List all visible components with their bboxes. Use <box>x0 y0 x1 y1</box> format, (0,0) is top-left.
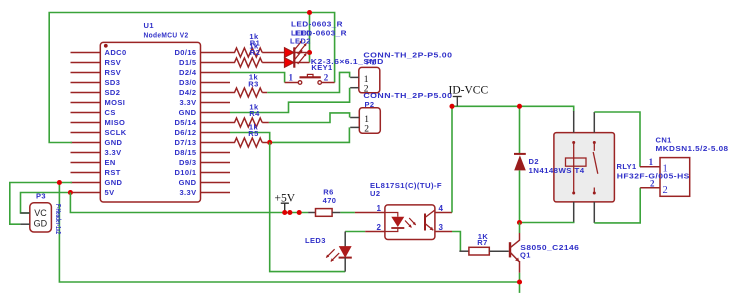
wire GND down to bottom rail <box>59 183 519 283</box>
U1 left pin GND (row 10) <box>71 142 101 144</box>
P1 pin1 stub <box>350 76 359 78</box>
junction dot b <box>297 210 302 215</box>
svg-text:RSV: RSV <box>105 68 122 77</box>
P3 GD pin stub <box>20 223 30 225</box>
svg-text:1: 1 <box>364 115 369 125</box>
junction dot LED1 cathode <box>307 50 312 55</box>
relay switch bottom line <box>593 188 595 194</box>
svg-text:1: 1 <box>377 204 382 213</box>
wire R6 to U2 pin1 <box>340 212 355 214</box>
wire 5V down to +5V line <box>70 193 308 213</box>
wire U2 pin3 to R7 <box>452 232 460 252</box>
relay switch top pin <box>593 112 595 133</box>
svg-text:F-Header-1x2: F-Header-1x2 <box>54 204 63 234</box>
wire ID-VCC down to D2 cathode <box>519 106 521 154</box>
wire D2 anode down <box>519 170 521 222</box>
relay coil top dot <box>572 141 575 144</box>
junction dot collector net <box>517 220 522 225</box>
P2 pin1 stub <box>350 117 359 119</box>
U1 left pin 3.3V (row 11) <box>71 152 101 154</box>
U1 right pin 3.3V (row 15) <box>201 192 231 194</box>
wire: U1 GND(row10) up-left-over to KEY1/LED rail <box>49 13 334 143</box>
svg-text:ID-VCC: ID-VCC <box>449 85 489 97</box>
svg-text:5V: 5V <box>105 188 115 197</box>
KEY1 pin2 lead <box>322 82 335 84</box>
svg-text:GND: GND <box>105 138 123 147</box>
svg-text:1: 1 <box>663 163 668 174</box>
svg-text:R5: R5 <box>248 129 258 138</box>
LED LED1 triangle <box>284 48 294 58</box>
CN1 pin2 lead <box>640 187 660 189</box>
svg-text:1: 1 <box>649 157 654 167</box>
U2 internal cathode bar <box>391 227 404 229</box>
resistor R4 <box>235 118 263 127</box>
wire U2 pin2 to LED3 anode <box>345 231 365 233</box>
svg-text:MOSI: MOSI <box>105 98 126 107</box>
svg-text:3: 3 <box>439 223 444 232</box>
wire relay switch top to CN1 pin1 <box>594 112 640 167</box>
U1 right pin D3/0 (row 4) <box>201 82 231 84</box>
P2 pin2 stub <box>350 126 359 128</box>
svg-text:LED3: LED3 <box>305 236 326 245</box>
U1 left pin SD2 (row 5) <box>71 92 101 94</box>
U2 internal cathode line <box>385 228 398 232</box>
U2 phototransistor bar <box>424 214 426 231</box>
U1 right pin D1/5 (row 2) <box>201 62 235 64</box>
Q1 collector <box>510 233 520 248</box>
LED3 cathode bar <box>339 257 352 259</box>
connector P3 body <box>30 203 52 232</box>
U1 left pin RST (row 13) <box>71 172 101 174</box>
wire D2/collector to relay coil- <box>520 222 575 224</box>
R6 left lead <box>308 212 315 214</box>
junction dot D2 top <box>517 104 522 109</box>
U2 internal LED triangle <box>391 217 404 227</box>
U1 left pin RSV (row 2) <box>71 62 101 64</box>
U1 right pin D9/3 (row 12) <box>201 162 231 164</box>
svg-text:3.3V: 3.3V <box>105 148 122 157</box>
U1 left pin SD3 (row 4) <box>71 82 101 84</box>
LED3 cathode lead <box>344 258 346 272</box>
svg-text:D5/14: D5/14 <box>174 118 196 127</box>
U1 left pin 5V (row 15) <box>71 192 101 194</box>
svg-text:EL817S1(C)(TU)-F: EL817S1(C)(TU)-F <box>370 181 442 190</box>
Q1 emitter <box>510 252 519 261</box>
wire U1 GND(row7) to P1 pin2 <box>230 88 350 113</box>
U2 pin3 lead <box>435 231 452 233</box>
ID-VCC tick stem <box>456 97 458 107</box>
P1 pin2 stub <box>350 87 359 89</box>
svg-text:D2/4: D2/4 <box>179 68 197 77</box>
U1 right pin D4/2 (row 5) <box>201 92 235 94</box>
svg-text:GND: GND <box>179 108 197 117</box>
svg-text:CONN-TH_2P-P5.00: CONN-TH_2P-P5.00 <box>363 91 452 100</box>
svg-text:2: 2 <box>650 178 655 188</box>
svg-text:D8/15: D8/15 <box>174 148 196 157</box>
wire U2 pin4 up to ID-VCC <box>451 106 453 212</box>
R5 lead <box>262 142 267 144</box>
svg-text:SCLK: SCLK <box>105 128 127 137</box>
relay coil line <box>573 142 575 193</box>
U2 coupling arrows <box>405 221 412 228</box>
svg-text:D0/16: D0/16 <box>174 48 196 57</box>
svg-text:R3: R3 <box>248 79 258 88</box>
U1 right pin D2/4 (row 3) <box>201 72 231 74</box>
svg-text:470: 470 <box>323 196 337 205</box>
U2 pin2 lead <box>365 231 385 233</box>
U1 left pin EN (row 12) <box>71 162 101 164</box>
connector CN1 body <box>660 158 690 197</box>
svg-text:MKDSN1.5/2-5.08: MKDSN1.5/2-5.08 <box>656 144 729 153</box>
U1 left pin MOSI (row 6) <box>71 102 101 104</box>
svg-text:D3/0: D3/0 <box>179 78 196 87</box>
wire R3 to P1 pin1 <box>267 72 349 92</box>
svg-text:CS: CS <box>105 108 116 117</box>
relay coil+ top pin <box>573 111 575 133</box>
wire R1 to LED1 anode <box>262 52 284 54</box>
svg-text:P2: P2 <box>365 100 375 109</box>
U1 left pin MISO (row 8) <box>71 122 101 124</box>
diode D2 triangle <box>514 155 526 170</box>
R7 left lead <box>459 250 469 252</box>
KEY1 pin2 contact circle <box>318 81 322 85</box>
junction dot R5/D6 net <box>267 140 272 145</box>
svg-text:R2: R2 <box>250 48 260 57</box>
relay coil box <box>566 158 587 166</box>
relay switch bottom pin <box>593 202 595 223</box>
mcu U1 NodeMCU V2 body <box>100 42 200 202</box>
wire R5 net down to LED3 cathode line <box>270 142 346 271</box>
svg-text:2: 2 <box>364 125 369 135</box>
wire relay switch to CN1 pin2 <box>594 188 640 223</box>
KEY1 pin1 lead <box>285 82 299 84</box>
junction dot a <box>287 210 292 215</box>
svg-text:D6/12: D6/12 <box>174 128 196 137</box>
svg-text:1: 1 <box>289 73 294 83</box>
U1 left pin GND (row 14) <box>71 182 101 184</box>
transistor Q1 base bar <box>509 242 511 257</box>
svg-text:MISO: MISO <box>105 118 126 127</box>
U2 pin1 lead <box>355 212 385 214</box>
svg-text:SD2: SD2 <box>105 88 121 97</box>
svg-text:Q1: Q1 <box>520 251 531 260</box>
KEY1 button bump <box>307 74 313 77</box>
optocoupler U2 body <box>385 205 435 240</box>
CN1 pin1 lead <box>640 166 660 168</box>
relay coil- bottom pin <box>573 202 575 223</box>
LED1/LED2 cathode bar <box>293 47 295 67</box>
wire LED1 cathode to junction <box>294 52 309 54</box>
ID-VCC tick bar <box>453 96 462 98</box>
svg-text:LED-0603_R: LED-0603_R <box>291 19 343 28</box>
LED2 emission arrows <box>294 50 303 61</box>
relay switch top dot <box>593 141 596 144</box>
relay RLY1 body <box>554 133 615 202</box>
LED LED2 triangle <box>284 58 294 68</box>
LED1 emission arrows <box>294 40 303 51</box>
U1 left pin RSV (row 3) <box>71 72 101 74</box>
connector P1 body <box>359 67 380 92</box>
diode D2 cathode bar <box>514 153 526 155</box>
svg-text:3.3V: 3.3V <box>179 98 196 107</box>
svg-text:GD: GD <box>34 219 48 229</box>
U1 pin-1 marker dot <box>104 44 108 48</box>
junction dot 5V <box>68 190 73 195</box>
svg-text:CONN-TH_2P-P5.00: CONN-TH_2P-P5.00 <box>363 50 452 59</box>
R6 right lead <box>332 212 340 214</box>
junction dot GND <box>57 180 62 185</box>
svg-text:3.3V: 3.3V <box>179 188 196 197</box>
U1 right pin D0/16 (row 1) <box>201 52 235 54</box>
R7 right lead <box>489 250 509 252</box>
svg-text:R7: R7 <box>477 238 487 247</box>
relay switch bottom dot <box>593 192 596 195</box>
svg-text:2: 2 <box>377 223 382 232</box>
KEY1 actuator bar <box>300 76 321 78</box>
wire U1 GND(row14) to P3 GD <box>10 183 72 225</box>
svg-text:P3: P3 <box>36 192 46 201</box>
wire emitter to bottom rail <box>519 273 521 293</box>
junction dot ID-VCC left <box>449 104 454 109</box>
relay coil bottom dot <box>572 192 575 195</box>
+5V symbol stem <box>284 203 286 212</box>
svg-text:D1/5: D1/5 <box>179 58 196 67</box>
wire R2 to LED2 anode <box>262 62 284 64</box>
wire: LED cathode drop from rail <box>309 13 311 63</box>
svg-text:ADC0: ADC0 <box>105 48 127 57</box>
svg-text:D4/2: D4/2 <box>179 88 196 97</box>
R4 lead <box>262 122 269 124</box>
LED LED3 triangle <box>340 247 351 257</box>
svg-text:NodeMCU V2: NodeMCU V2 <box>144 30 189 39</box>
U2 internal anode line <box>385 213 398 217</box>
ID-VCC rail wire <box>452 106 574 111</box>
svg-text:D2: D2 <box>529 157 539 166</box>
U1 left pin CS (row 7) <box>71 112 101 114</box>
svg-text:2: 2 <box>663 185 668 196</box>
svg-text:R4: R4 <box>249 109 260 118</box>
resistor R6 body <box>316 209 333 217</box>
svg-text:D9/3: D9/3 <box>179 158 196 167</box>
svg-text:RST: RST <box>105 168 121 177</box>
svg-text:RSV: RSV <box>105 58 122 67</box>
LED3 anode lead <box>344 232 346 247</box>
wire collector up <box>519 223 521 234</box>
U1 left pin ADC0 (row 1) <box>71 52 101 54</box>
svg-text:GND: GND <box>179 178 197 187</box>
connector P2 body <box>359 108 380 134</box>
svg-text:KEY1: KEY1 <box>311 63 332 72</box>
U2 pin4 lead <box>435 212 452 214</box>
U1 right pin D6/12 (row 9) <box>201 132 231 134</box>
junction dot emitter/bottom rail <box>517 279 522 284</box>
relay switch top line <box>593 142 595 150</box>
R3 lead <box>262 92 267 94</box>
U1 right pin 3.3V (row 6) <box>201 102 231 104</box>
wire D6/12 down to R5 junction <box>230 133 270 143</box>
svg-text:2: 2 <box>324 73 329 83</box>
svg-text:P1: P1 <box>366 58 376 67</box>
junction dot +5V tap <box>282 210 287 215</box>
resistor R1 <box>235 48 263 57</box>
svg-text:4: 4 <box>439 204 444 213</box>
svg-text:LED2: LED2 <box>290 37 311 46</box>
svg-text:VC: VC <box>34 208 47 218</box>
relay switch blade <box>593 152 598 174</box>
U1 right pin D7/13 (row 10) <box>201 142 235 144</box>
svg-text:SD3: SD3 <box>105 78 121 87</box>
+5V symbol bar <box>281 202 289 204</box>
svg-text:GND: GND <box>105 178 123 187</box>
U1 left pin SCLK (row 9) <box>71 132 101 134</box>
resistor R7 body <box>469 247 489 255</box>
resistor R5 <box>235 138 263 147</box>
U1 right pin GND (row 14) <box>201 182 231 184</box>
wire D2/4 to KEY1 pin1 <box>230 73 285 83</box>
U1 right pin D10/1 (row 13) <box>201 172 231 174</box>
svg-text:EN: EN <box>105 158 116 167</box>
U1 right pin GND (row 7) <box>201 112 231 114</box>
KEY1 pin1 contact circle <box>298 81 302 85</box>
wire R4 to P2 pin1 <box>269 113 350 123</box>
wire R5 junction to P2 pin2 <box>267 127 349 142</box>
svg-text:RLY1: RLY1 <box>617 162 637 171</box>
svg-text:D10/1: D10/1 <box>174 168 196 177</box>
svg-text:U1: U1 <box>144 21 154 30</box>
U2 collector line <box>425 210 435 217</box>
U1 right pin D5/14 (row 8) <box>201 122 235 124</box>
junction dot on rail <box>307 10 312 15</box>
P3 VC pin stub <box>20 212 30 214</box>
LED3 emission arrows <box>326 249 334 257</box>
svg-text:U2: U2 <box>370 189 380 198</box>
U1 right pin D8/15 (row 11) <box>201 152 231 154</box>
wire U1 5V to P3 VC <box>21 193 71 214</box>
Q1 emitter lead down <box>519 261 521 273</box>
svg-text:1N4148WS T4: 1N4148WS T4 <box>529 166 585 175</box>
U2 emitter line <box>425 224 433 231</box>
wire LED2 cathode to junction <box>294 62 309 64</box>
svg-text:D7/13: D7/13 <box>174 138 196 147</box>
resistor R2 <box>235 58 263 67</box>
resistor R3 <box>235 88 263 97</box>
